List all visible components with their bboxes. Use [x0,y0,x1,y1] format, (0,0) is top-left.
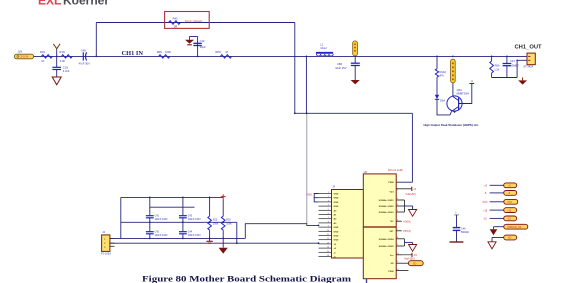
svg-text:+15: +15 [483,209,488,212]
connector J4 pin stubs and labels [319,194,339,259]
svg-text:NU (no stuff): NU (no stuff) [388,168,403,172]
wire: IC pin1 horizontal y181.4 [396,181,412,183]
svg-text:Q6A: Q6A [457,88,462,92]
node: fuse top junction [452,56,454,58]
wire: long wire y243.2 to connector [110,242,319,244]
svg-text:14: 14 [327,247,329,249]
svg-text:2: 2 [328,196,329,198]
svg-text:C1N: C1N [63,65,68,69]
svg-text:3.3nF: 3.3nF [63,69,70,73]
wire: main input line y56.4 [34,55,528,57]
fuse F1A (yellow body) [451,59,456,83]
svg-text:SIGNAL GND1: SIGNAL GND1 [379,199,395,202]
port +5 [484,183,517,188]
resistor R8N 1K [215,50,231,58]
svg-text:D6A: D6A [440,99,445,103]
svg-text:GND: GND [334,202,339,204]
node: junction pin2 drop [516,60,518,62]
wire: horizontal y113.3 to x412.8 [295,112,413,114]
capacitor C1N shunt 3.3nF [52,56,69,77]
capacitor C42 100nF 100V [146,231,168,239]
svg-text:C10: C10 [200,39,205,43]
svg-text:1K: 1K [225,50,228,54]
connector SD (yellow oval at pin 11) [408,261,423,266]
node: junction at x56.7 [56,56,58,58]
svg-text:10uH: 10uH [320,46,326,50]
svg-text:100K: 100K [213,223,219,226]
IC U2 right pin labels [379,182,395,273]
wire: CH1_OUT pin2 drop [517,60,527,77]
svg-text:VST: VST [389,231,394,233]
svg-text:10pF: 10pF [200,45,206,49]
wire: diode down and right to emitter [437,99,450,115]
node: junction y113.3 mid [306,112,308,114]
svg-text:GND: GND [334,198,339,200]
svg-text:100nF 100V: 100nF 100V [155,234,168,237]
node: junction C31 top [506,56,508,58]
capacitor C31 [503,56,520,77]
svg-text:100K: 100K [226,223,232,226]
transistor Q6A MMBT3904 [447,88,470,115]
resistor R9N 100K [157,50,172,58]
label Vss pin (red) [402,253,418,261]
ground (bar style) under R20 [206,238,212,243]
svg-text:CH1_OUT: CH1_OUT [515,44,543,50]
test point TP1 (yellow) [353,41,358,56]
svg-text:4: 4 [328,205,329,207]
svg-text:8: 8 [328,221,329,223]
svg-text:12: 12 [327,238,329,240]
svg-text:C4N: C4N [81,48,86,52]
svg-text:10uF 25V: 10uF 25V [335,66,347,70]
svg-text:A: A [471,79,473,83]
capacitor C44 100nF 100V [179,231,201,239]
wire: bypass right vertical down to y113 [294,23,296,114]
power arrow (solid down) [490,227,498,236]
wire: vertical x412.8 down to IC pin1 [411,113,413,182]
inductor L1 10uH [316,43,333,57]
port VCC [482,199,517,204]
red emphasis box around R43 [165,12,210,29]
svg-text:GND: GND [334,236,339,238]
svg-text:1: 1 [328,192,329,194]
svg-text:47uF 50V: 47uF 50V [79,61,91,65]
svg-text:U2: U2 [364,170,368,174]
svg-text:SIGNAL GND2: SIGNAL GND2 [379,205,395,208]
svg-text:SIGNAL GND5: SIGNAL GND5 [379,245,395,248]
ground (solid) under C8N [351,80,360,84]
svg-text:Koerner: Koerner [63,0,109,8]
svg-text:R10A: R10A [440,70,447,74]
node A (net stub) [469,79,474,84]
wire: bypass top line y22.5 [96,22,294,24]
ground (solid earth) left of C10 [185,37,194,45]
svg-text:C31: C31 [510,59,515,63]
svg-text:1K: 1K [41,59,44,63]
svg-text:R20: R20 [213,219,218,222]
power port + (red) [221,194,226,199]
node: HOPS junction x437 [436,56,438,58]
ground (open triangle) under C1N [52,77,61,85]
resistor R19 100K (vertical) [221,199,232,247]
node A stub (top) [454,212,459,215]
wire: gray vertical x306.8 [306,113,308,223]
svg-text:5600pF: 5600pF [461,231,470,234]
IC U2 right pin stubs [396,189,411,271]
svg-text:R43: R43 [173,16,178,20]
port -5 [484,191,517,196]
svg-text:GND: GND [334,231,339,233]
svg-text:47k: 47k [440,74,445,78]
capacitor C8N 10uF 25V [335,56,360,80]
node: junction C10 [197,56,199,58]
svg-text:GND: GND [334,194,339,196]
node: junction bypass left x96.3 [95,56,97,58]
node: junction dots at J4 wires [318,225,320,227]
svg-text:SD: SD [413,262,417,265]
ground (open) U2 pins 8-9 [405,239,417,252]
svg-text:5: 5 [328,209,329,211]
svg-text:100nF 100V: 100nF 100V [188,218,201,221]
svg-text:R1N: R1N [40,50,45,54]
node: junction x306.4 [306,56,308,58]
wire: mid rail drop x236.8 to long pin wire [236,222,238,243]
svg-text:6: 6 [328,213,329,215]
svg-text:VCC: VCC [507,201,512,204]
ground (solid) output [518,78,527,85]
svg-text:R19: R19 [226,219,231,222]
svg-text:NU by default: NU by default [185,19,202,23]
capacitor C10 10pF to ground [190,37,207,57]
resistor R4N [60,50,73,63]
wire: inter-column rail y207.2 [150,206,195,208]
pin numbers U2 [396,180,400,271]
svg-text:13: 13 [327,242,329,244]
svg-text:SD: SD [391,263,394,265]
svg-text:SIGNAL GND4: SIGNAL GND4 [379,238,395,241]
svg-text:GND: GND [307,194,313,197]
node: junction y113.3 left [294,112,296,114]
wire: L-step up to pin wire [245,224,318,239]
svg-text:R9N: R9N [157,50,162,54]
svg-text:VCC: VCC [482,201,487,204]
svg-text:Vdd: Vdd [389,192,394,194]
label Vdd power (red) [406,187,417,196]
diode D6A [435,95,446,103]
svg-text:9: 9 [328,226,329,228]
ground (open) U2 pins 3-5 [405,200,417,216]
resistor R20 100K (vertical) [208,197,219,238]
svg-text:PWRGD_OK: PWRGD_OK [507,226,521,229]
port -15 [483,216,517,221]
wire: bypass left vertical [95,23,97,57]
resistor R1N [40,50,52,63]
wire: bottom rail y238.4 [110,237,245,239]
port +15 [483,208,517,213]
svg-text:1.2k: 1.2k [494,68,500,72]
svg-text:R6A: R6A [495,63,500,67]
resistor R6A 1.2k (vertical) [490,56,500,77]
resistor R43 (in red box) [169,16,202,28]
svg-text:SD: SD [508,237,512,240]
wire: main line vertical drop x306.4 [305,56,307,113]
wire: GND bus hook on J4 pins 1-3 [314,194,318,202]
connector J1N input jack [14,50,33,59]
wire: output gnd rail y77.5 [492,77,517,79]
svg-text:PWM: PWM [388,182,394,184]
svg-text:GND: GND [334,206,339,208]
port PWRGD_OK (wide) [494,224,528,229]
svg-text:+15: +15 [507,209,512,212]
capacitor C4N coupling 47uF 50V [79,48,91,65]
svg-text:EXL: EXL [38,0,61,8]
svg-text:R8N: R8N [215,50,220,54]
svg-text:CH1 IN: CH1 IN [20,55,29,59]
svg-text:VST(A): VST(A) [403,230,411,233]
svg-text:16: 16 [327,255,329,257]
capacitor C4A 5600pF [453,215,470,242]
svg-text:100nF 100V: 100nF 100V [188,234,201,237]
wire: stub up from junction [56,49,58,57]
connector J2 PJ-102A [101,230,115,255]
junction dots bottom network [149,197,238,245]
svg-text:ST-342A: ST-342A [523,65,533,69]
J4 pin numbers [327,192,329,257]
svg-text:J1N: J1N [18,50,23,54]
resistor R10A 47k (vertical) [435,69,446,78]
connector ST-342A output [523,53,535,69]
svg-text:11: 11 [327,234,329,236]
svg-text:SIGNAL GND3: SIGNAL GND3 [379,211,395,214]
svg-text:15: 15 [327,251,329,253]
wire: HOPS left branch vertical [436,56,438,68]
svg-text:NC: NC [390,221,394,223]
svg-text:Vss(-15V): Vss(-15V) [404,257,415,260]
svg-text:MMBT3904: MMBT3904 [457,93,470,96]
svg-text:Figure 80 Mother Board Schemat: Figure 80 Mother Board Schematic Diagram [142,274,352,283]
svg-text:SMBJ: SMBJ [512,63,520,67]
IC U2 (yellow box) [363,168,402,279]
svg-text:100nF 100V: 100nF 100V [155,218,168,221]
svg-text:C8N: C8N [337,62,342,66]
logo (cut off at top edge) [38,0,109,8]
svg-text:3: 3 [328,200,329,202]
capacitor C43 100nF 100V [179,197,201,231]
wire: R10A to D6A [436,77,438,95]
svg-text:100K: 100K [165,50,171,54]
svg-text:GND: GND [334,227,339,229]
svg-text:PWM: PWM [388,271,394,273]
ground (solid) under R19 [219,248,228,254]
node: junction x355.2 [354,56,356,58]
capacitor C41 100nF 100V [146,197,168,231]
wire: left vertical x120.8 [120,197,122,238]
wire: mid rail y222.3 [121,221,237,223]
port SD2 [492,235,517,240]
svg-text:High Output Peak Shutdown (HOP: High Output Peak Shutdown (HOPS) ckt. [424,123,479,127]
svg-text:10: 10 [327,230,329,232]
wire: base to net A [459,84,472,104]
wire: top rail y197.4 [121,196,223,198]
wire: IC bottom exit [366,279,368,283]
svg-text:3.3K: 3.3K [60,59,66,63]
svg-text:GND: GND [334,240,339,242]
svg-text:+5V(A): +5V(A) [403,220,411,223]
node: junction x491.6 [491,56,493,58]
ground (open) under SD2 wire [488,238,496,249]
svg-text:PJ-102A: PJ-102A [101,251,111,255]
connector J4 (left yellow header) [332,184,364,258]
svg-text:CH1 IN: CH1 IN [122,50,144,57]
svg-text:R4N: R4N [60,50,65,54]
wire: fuse to collector [452,83,454,97]
ground (bar) under C4A [450,241,464,243]
svg-text:0R: 0R [174,25,177,29]
power port arrow (open V) [53,44,60,49]
svg-text:Vdd(+5V): Vdd(+5V) [406,193,416,196]
svg-text:7: 7 [328,217,329,219]
